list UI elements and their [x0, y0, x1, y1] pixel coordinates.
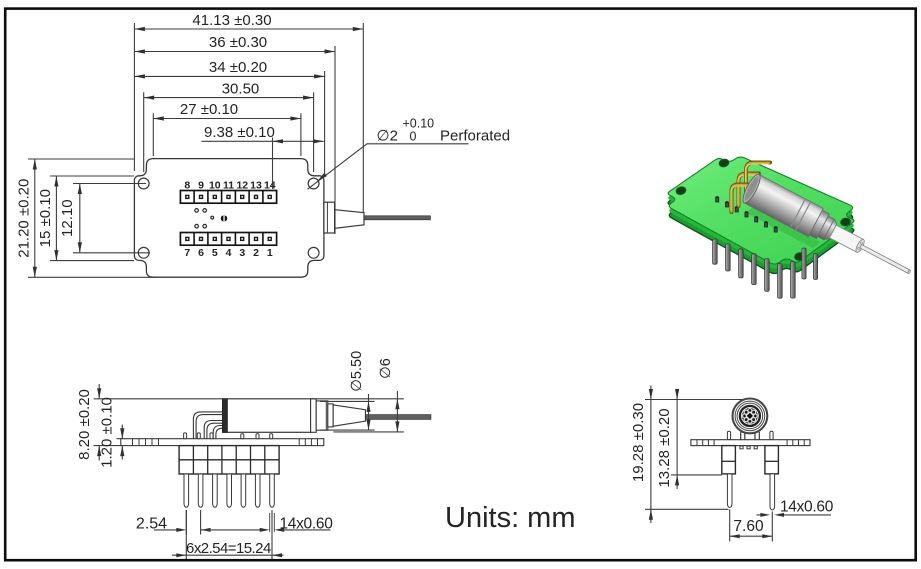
dimension 7.60	[730, 510, 773, 542]
inner connector face	[742, 408, 758, 424]
snout nose cone (side view)	[333, 405, 365, 426]
plate edge ticks left	[133, 439, 159, 446]
bent J-lead pins (side view)	[193, 412, 222, 439]
plate mounting holes (3d)	[675, 158, 851, 261]
svg-text:12.10: 12.10	[59, 199, 76, 237]
pin stubs on plate (end view)	[727, 431, 773, 440]
svg-text:3: 3	[239, 247, 245, 259]
svg-text:8.20 ±0.20: 8.20 ±0.20	[76, 389, 93, 460]
black pin studs on plate top	[716, 197, 778, 232]
dimension 21.20 +-0.20 (vertical)	[16, 159, 157, 277]
svg-text:36 ±0.30: 36 ±0.30	[209, 34, 267, 51]
svg-text:27 ±0.10: 27 ±0.10	[180, 101, 238, 118]
svg-text:2.54: 2.54	[136, 515, 167, 532]
small pin stubs on plate top	[184, 433, 273, 439]
svg-text:0: 0	[410, 130, 417, 144]
svg-text:∅5.50: ∅5.50	[349, 351, 365, 392]
dimension 19.28 +-0.30 (vertical)	[630, 386, 743, 524]
svg-text:+0.10: +0.10	[403, 117, 435, 131]
7 through pins (side view)	[184, 474, 274, 507]
svg-text:13: 13	[250, 179, 262, 191]
svg-text:7: 7	[184, 247, 190, 259]
dimension dia 5.50 (side view)	[320, 351, 375, 430]
fiber snout nose (top view)	[335, 210, 364, 229]
svg-text:12: 12	[236, 179, 248, 191]
pin numbers top row	[184, 179, 275, 191]
svg-text:8: 8	[184, 179, 190, 191]
svg-text:6x2.54=15.24: 6x2.54=15.24	[186, 540, 271, 557]
fiber pigtail (top view)	[364, 216, 430, 220]
gold bent leads	[731, 163, 770, 213]
dimension 14x0.60 (side view)	[260, 513, 334, 532]
mounting hole bottom-left	[138, 247, 149, 258]
snout ring 1	[311, 399, 317, 433]
dimension 14x0.60 (end view)	[757, 498, 834, 517]
metal barrel assembly	[740, 172, 918, 286]
dimension 9.38 +-0.10	[202, 124, 324, 189]
small marks under plate	[740, 446, 757, 449]
svg-text:10: 10	[209, 179, 221, 191]
PCB plate top face	[668, 157, 854, 264]
svg-text:41.13 ±0.30: 41.13 ±0.30	[192, 12, 271, 29]
dimension dia 6 (side view)	[311, 358, 404, 432]
svg-text:21.20 ±0.20: 21.20 ±0.20	[16, 179, 33, 258]
svg-text:5: 5	[212, 247, 218, 259]
module body left cap (dark)	[223, 399, 228, 433]
pin row top (pins 8-14)	[180, 191, 276, 204]
svg-text:1: 1	[267, 247, 273, 259]
dimension 12.10 (vertical)	[59, 184, 150, 253]
svg-text:13.28 ±0.20: 13.28 ±0.20	[656, 408, 673, 487]
svg-text:15 ±0.10: 15 ±0.10	[37, 189, 54, 247]
module body (side view)	[223, 399, 311, 433]
mounting hole top-right	[308, 178, 319, 189]
dimension 36 +-0.30	[134, 34, 335, 234]
svg-text:6: 6	[198, 247, 204, 259]
filled fiducial dot	[221, 215, 227, 221]
pin row bottom (pins 7-1)	[180, 233, 276, 246]
baseplate (side view)	[121, 439, 324, 446]
PCB plate bottom face (thickness)	[668, 167, 854, 274]
dimension 6x2.54=15.24 (side view)	[172, 510, 284, 559]
svg-text:30.50: 30.50	[222, 80, 260, 97]
leader for perforation callout	[308, 144, 469, 189]
snout ring 3	[328, 404, 333, 427]
dimension 1.20 +-0.10 (vertical, side view)	[99, 397, 125, 468]
baseplate (end view)	[691, 440, 810, 446]
dimension 2.54 (side view)	[136, 510, 260, 535]
svg-text:19.28 ±0.30: 19.28 ±0.30	[630, 403, 647, 482]
pins (end view)	[727, 474, 732, 508]
snout ring 2	[316, 401, 328, 430]
header blocks (end view)	[722, 446, 736, 474]
svg-text:∅6: ∅6	[378, 358, 394, 379]
svg-text:14x0.60: 14x0.60	[279, 515, 333, 532]
svg-text:∅2: ∅2	[377, 128, 398, 145]
dimension 13.28 +-0.20 (vertical)	[656, 389, 722, 489]
back-row pins visible at right	[802, 248, 818, 280]
svg-text:14x0.60: 14x0.60	[780, 498, 834, 515]
svg-text:7.60: 7.60	[733, 518, 764, 535]
shadow of barrel on plate	[746, 207, 820, 248]
svg-text:Perforated: Perforated	[440, 128, 510, 145]
svg-text:14: 14	[264, 179, 276, 191]
perforation callout text	[377, 117, 511, 145]
dimension 30.50	[144, 80, 314, 172]
gray pins hanging below plate front edge	[713, 239, 796, 298]
svg-text:34 ±0.20: 34 ±0.20	[209, 59, 267, 76]
svg-text:9.38 ±0.10: 9.38 ±0.10	[204, 124, 275, 141]
pin header block (side view)	[179, 446, 279, 474]
pedestal under barrel	[741, 432, 760, 440]
dimension 34 +-0.20	[134, 59, 324, 177]
svg-text:Units: mm: Units: mm	[445, 502, 576, 534]
svg-text:9: 9	[198, 179, 204, 191]
mounting hole top-left	[138, 178, 149, 189]
fiber snout flange (top view)	[324, 202, 335, 233]
PCB plate left-bottom thickness shade	[668, 162, 854, 269]
svg-text:11: 11	[223, 179, 234, 191]
package body outline (top view)	[134, 159, 324, 278]
svg-text:4: 4	[226, 247, 232, 259]
alignment dots inside package	[195, 209, 214, 228]
plate edge ticks right	[299, 439, 317, 446]
svg-text:1.20 ±0.10: 1.20 ±0.10	[99, 397, 116, 468]
svg-text:2: 2	[253, 247, 259, 259]
dimension 27 +-0.10	[153, 101, 301, 156]
pin numbers bottom row	[184, 247, 272, 259]
dimension 15 +-0.10 (vertical)	[37, 176, 134, 261]
module barrel end-on: outer ring	[733, 399, 768, 434]
dimension 41.13 +-0.30	[134, 12, 363, 212]
fiber pigtail (side view)	[365, 415, 431, 420]
dimension 8.20 +-0.20 (vertical, side view)	[76, 384, 227, 461]
mounting hole bottom-right	[308, 247, 319, 258]
